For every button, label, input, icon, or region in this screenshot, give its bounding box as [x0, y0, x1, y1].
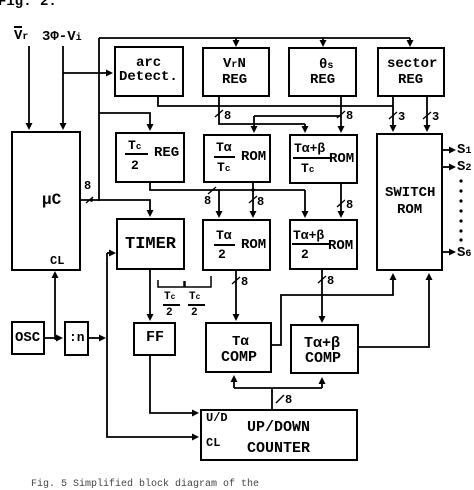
wire vertical riser x=99 from uC bus to top bus — [98, 38, 100, 201]
wire clock up to uC CL — [52, 271, 59, 338]
wire branch y=113 into Tc/2 REG — [99, 113, 154, 131]
arc Detect block — [114, 46, 184, 97]
UP/DOWN COUNTER block — [200, 409, 358, 461]
wire Ta+b/Tc ROM output down — [337, 184, 345, 218]
bus width label 8 on Ta/Tc output — [257, 196, 264, 208]
wire arc Detect output line across to switch rom input — [158, 97, 393, 106]
wire switch rom output S6 — [443, 249, 456, 256]
wire Ta COMP output to SWITCH ROM bottom — [272, 273, 397, 345]
wire Ta+b COMP output to SWITCH ROM bottom — [359, 273, 433, 347]
wire FF output to counter U/D — [150, 356, 199, 417]
wire switch rom output S2 — [443, 164, 456, 171]
output label S6 — [457, 246, 471, 260]
wire uC 8-bit output bus — [81, 197, 154, 217]
wire drop into Ta+b/Tc ROM at x=305 — [302, 124, 309, 133]
wire cross link y=116 to theta-s wire — [254, 115, 341, 117]
wire top bus from uC — [99, 37, 410, 39]
output label S1 — [457, 143, 471, 157]
wire counter feedback bus to comparators — [231, 375, 326, 409]
cropped caption fragment bottom — [31, 480, 259, 490]
bus width label 3 right — [432, 111, 439, 123]
input label Vr(bar) — [14, 29, 28, 43]
OSC block — [11, 321, 45, 355]
wire TIMER output to FF — [147, 270, 154, 321]
wire 3phi-Vi input to uC — [60, 46, 67, 130]
wire clock vertical from divider to TIMER and counter CL — [107, 250, 199, 441]
input label 3phi-Vi — [42, 30, 82, 44]
ellipsis dots between S2 and S6 — [459, 179, 462, 241]
Ta COMP block — [205, 322, 272, 373]
VrN REG block — [202, 47, 270, 97]
Ta+b/Tc ROM block — [289, 134, 358, 184]
FF block — [133, 322, 176, 356]
Ta+b COMP block — [290, 324, 359, 374]
wire bus drop arrow into sector REG — [407, 38, 414, 47]
wire bus drop arrow into VrN REG — [233, 38, 240, 47]
TIMER block — [116, 218, 185, 270]
wire Ta+b/2 ROM output to Ta+b COMP — [318, 270, 326, 323]
wire branch into Ta+b/2 ROM left input — [302, 190, 309, 218]
microcontroller uC — [11, 131, 81, 271]
wire sector REG output 3-bit right — [423, 97, 431, 132]
Ta/Tc ROM block — [203, 134, 271, 183]
wire switch rom output S1 — [443, 147, 456, 154]
bus width label 8 on Ta/2 output — [241, 276, 248, 288]
wire bus drop arrow into theta-s REG — [320, 38, 327, 47]
wire branch into Ta/2 ROM left input — [216, 190, 223, 218]
bus width label 8 on Ta+b/2 output — [327, 275, 334, 287]
wire sector REG output 3-bit left — [389, 97, 397, 132]
wire Tc/2 REG output across — [150, 183, 305, 194]
wire Vr input to uC — [26, 46, 33, 130]
sector REG block — [377, 47, 445, 97]
wire OSC output to divider :n — [45, 335, 63, 342]
bus width label 8 at uC output — [84, 180, 91, 192]
theta-s REG block — [288, 47, 357, 97]
cropped caption fragment top — [0, 0, 57, 9]
bus width label 8 at VrN output — [224, 110, 231, 122]
bus width label 8 on counter feedback — [285, 394, 292, 406]
Tc/2 REG block — [115, 132, 185, 183]
bus width label 8 on Tc/2 line — [204, 195, 211, 207]
wire branch to arc Detect input — [63, 70, 113, 77]
SWITCH ROM block — [376, 133, 443, 271]
divider :n block — [64, 321, 89, 356]
wire VrN REG output — [215, 97, 305, 124]
timing bracket under TIMER — [158, 276, 211, 287]
wire VrN drop into Ta/Tc ROM — [251, 116, 258, 133]
bus width label 8 on Ta+b/Tc output — [346, 199, 353, 211]
timing label Tc/2 second — [189, 292, 200, 303]
wire Ta/2 ROM output to Ta COMP — [232, 271, 240, 321]
wire Ta/Tc ROM output down — [249, 183, 257, 218]
output label S2 — [457, 160, 471, 174]
bus width label 3 left — [398, 111, 405, 123]
wire theta-s REG output — [337, 97, 345, 133]
timing label Tc/2 first — [164, 292, 175, 303]
Ta+b/2 ROM block — [289, 219, 358, 270]
bus width label 8 at theta-s output — [346, 110, 353, 122]
wire divider :n output to clock line — [89, 335, 106, 342]
Ta/2 ROM block — [202, 219, 271, 271]
